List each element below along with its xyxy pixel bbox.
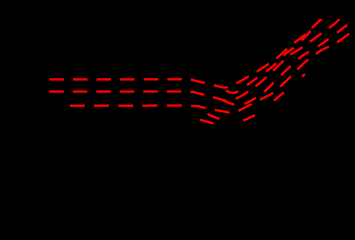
curve component C3: deepest short split dash (200, 120, 216, 124)
curve branch C2: lower split component of branch C (204, 74, 305, 122)
curve branch A1: flat upper exciton-like level, dip, steep rise clipped at top (49, 18, 323, 88)
curve branch A2: lower split component of branch A (216, 17, 323, 93)
curve branch B2: lower split component of branch B, to corner (220, 19, 355, 105)
curve branch B1: flat middle level, dip, steep rise (49, 19, 340, 102)
curve branch C1: flat lower level, dip, rise to right edge (70, 29, 355, 113)
